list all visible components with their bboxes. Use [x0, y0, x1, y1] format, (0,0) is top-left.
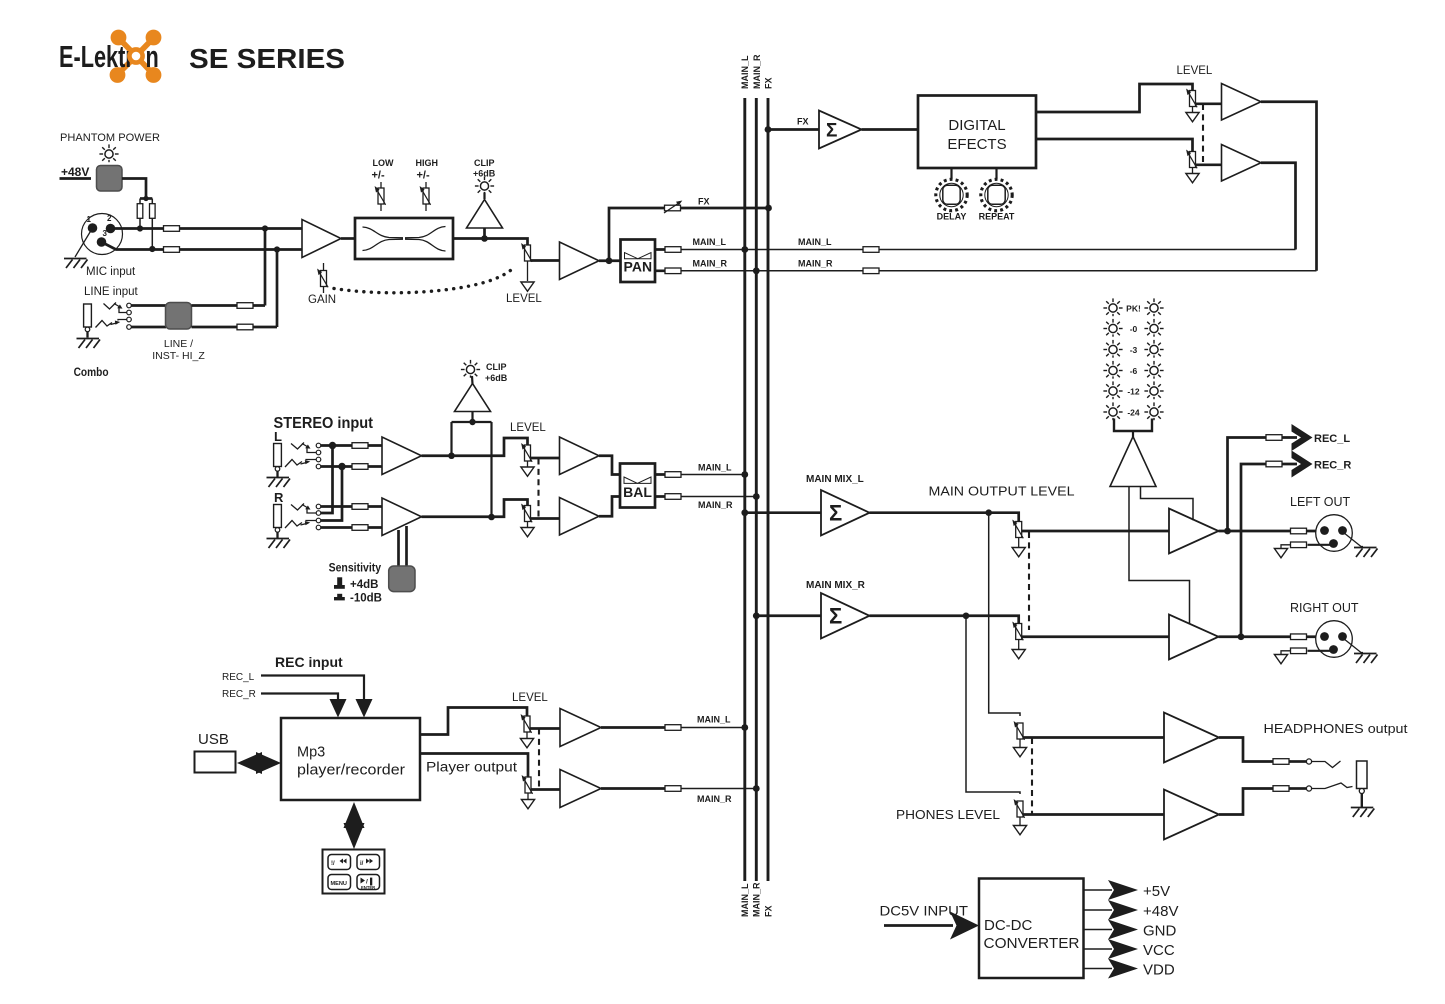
wire: main L out to XLR	[1219, 530, 1322, 533]
wire: R wiper to amp	[531, 517, 560, 520]
svg-text:LEVEL: LEVEL	[510, 422, 546, 434]
DIGITAL EFECTS block	[918, 96, 1036, 169]
svg-text:LEFT OUT: LEFT OUT	[1290, 495, 1351, 509]
wire: fx bus to sum amp	[768, 128, 819, 131]
junction: pan R on MAIN_R bus	[753, 267, 760, 274]
LED clip mic	[475, 176, 494, 194]
dashed gang link stereo pots	[537, 459, 539, 519]
icon +4dB switch	[334, 577, 345, 589]
contact: ring switch arrow	[111, 323, 118, 325]
L contact circles	[316, 443, 321, 448]
wire: jack tip to switch box	[131, 304, 166, 307]
resistor line cold	[237, 324, 253, 330]
main output pot L	[1012, 520, 1023, 539]
dotted gain-level link	[334, 266, 516, 293]
ground arrow player pot R	[527, 793, 529, 799]
clip detector amp (mic)	[467, 200, 503, 229]
junction: phones L tap	[985, 509, 992, 516]
wire: L-R normalling drop 2	[321, 467, 342, 521]
dashed gang link fx pots	[1202, 104, 1204, 164]
R tip lever	[291, 504, 304, 511]
svg-text:DIGITAL: DIGITAL	[948, 117, 1005, 134]
op-amp stereo R post	[560, 498, 600, 536]
sum amp FX	[819, 111, 862, 149]
junction: MAIN_R bus to sum	[753, 612, 760, 619]
svg-text:-24: -24	[1127, 408, 1140, 418]
svg-text:MAIN_L: MAIN_L	[697, 715, 731, 725]
svg-text:FX: FX	[797, 117, 809, 127]
wire: sum L to output pot	[870, 513, 1019, 522]
wire: sum amp to effects box	[862, 128, 919, 131]
resistor BAL L	[665, 472, 681, 478]
wire: clip bracket	[471, 412, 473, 423]
svg-text:+6dB: +6dB	[485, 373, 508, 383]
svg-text:LEVEL: LEVEL	[506, 293, 542, 305]
resistor pan R	[665, 268, 681, 274]
LEVEL pot (mic)	[521, 243, 532, 262]
wire: level wiper to amp	[531, 259, 560, 262]
XLR right out	[1316, 621, 1353, 658]
ground chassis (headphone)	[1351, 808, 1375, 818]
svg-text:-6: -6	[1130, 366, 1138, 376]
svg-text:CLIP: CLIP	[474, 158, 495, 168]
Mp3 player/recorder block	[281, 718, 420, 800]
resistor line hot	[237, 303, 253, 309]
op-amp mic post fader	[560, 242, 600, 280]
wire: line-in hot riser	[264, 229, 267, 306]
svg-text:1: 1	[87, 215, 92, 224]
LINE input jack plug	[84, 304, 92, 338]
svg-text:MAIN_R: MAIN_R	[693, 258, 728, 268]
wire: pot R wiper to amp	[1022, 635, 1169, 638]
junction: line input joins hot	[262, 225, 268, 231]
LEVEL pot player L	[521, 714, 532, 733]
wire: switch to cold riser	[192, 326, 278, 329]
LED clip stereo	[461, 360, 480, 378]
meter LEDs left column	[1103, 298, 1122, 316]
svg-text:n: n	[146, 39, 159, 74]
wire: sensitivity drop 2	[405, 526, 408, 566]
junction: phones R tap	[963, 612, 970, 619]
junction: clip dot top	[469, 419, 475, 425]
svg-text:VCC: VCC	[1143, 942, 1175, 959]
wire: +5V out	[1084, 889, 1113, 891]
wire: L wiper to amp	[531, 457, 560, 460]
EQ curves	[363, 227, 446, 252]
DC-DC converter block	[979, 879, 1084, 979]
ground chassis (mic)	[64, 259, 88, 269]
svg-text:VDD: VDD	[1143, 962, 1175, 979]
svg-text:MAIN MIX_L: MAIN MIX_L	[806, 474, 864, 485]
icon -10dB switch	[334, 594, 345, 601]
wire: pot L wiper to amp	[1022, 530, 1169, 533]
svg-text:LINE /: LINE /	[164, 338, 193, 350]
wire: REC_R into player	[261, 694, 338, 701]
resistor phones R	[1273, 786, 1289, 792]
wire: pot R wiper to amp	[1196, 163, 1222, 166]
junction: clip tap on signal	[481, 235, 488, 242]
svg-text:Σ: Σ	[829, 604, 842, 629]
wire: L-R normalling drop 1	[321, 446, 333, 514]
sum amp main L	[821, 490, 870, 536]
svg-text:REC_R: REC_R	[1314, 460, 1351, 472]
op-amp main out L	[1169, 509, 1219, 554]
phones pot L	[1014, 721, 1025, 740]
resistor mic hot	[164, 226, 180, 232]
svg-text:RIGHT OUT: RIGHT OUT	[1290, 601, 1359, 615]
svg-text:2: 2	[107, 214, 112, 223]
HIGH pot	[425, 182, 427, 211]
svg-text:Σ: Σ	[826, 121, 837, 142]
svg-text:MAIN MIX_R: MAIN MIX_R	[806, 580, 866, 591]
wire: stereo R to level pot	[422, 500, 528, 517]
button next	[357, 855, 380, 870]
svg-text:LEVEL: LEVEL	[512, 692, 548, 704]
junction: MAIN_L bus to sum	[741, 509, 748, 516]
svg-text:MAIN_R: MAIN_R	[698, 500, 733, 510]
svg-text:REC_L: REC_L	[222, 672, 255, 683]
wire: REC_L riser	[1228, 438, 1298, 532]
svg-text:MAIN_R: MAIN_R	[752, 54, 762, 89]
wire: BAL L to bus	[655, 473, 673, 476]
arrow REC_R	[1292, 451, 1313, 478]
main output pot R	[1012, 622, 1023, 641]
wire: pin2 to preamp (hot)	[111, 227, 303, 230]
wire: pan R out to bus	[655, 269, 673, 272]
junction: BAL R on bus	[753, 493, 760, 500]
wire: phones feed R	[966, 616, 1020, 794]
LEVEL pot stereo R	[521, 504, 532, 523]
op-amp phones L	[1164, 713, 1219, 763]
LINE/INST switch	[166, 303, 192, 330]
wire: sensitivity drop 1	[397, 530, 400, 566]
resistor XLR R	[1291, 634, 1307, 640]
ground arrow player pot L	[526, 732, 528, 738]
XLR left out	[1316, 515, 1353, 552]
R ring normal wire	[306, 520, 316, 523]
ground arrow stereo R pot	[527, 522, 529, 528]
logo molecule ring	[129, 49, 142, 62]
svg-text:MAIN_L: MAIN_L	[740, 883, 750, 917]
ground arrow stereo L pot	[527, 461, 529, 467]
meter driver amp	[1110, 437, 1156, 487]
knob DELAY	[936, 179, 967, 210]
wire: R to BAL	[599, 497, 620, 517]
op-amp fx return R	[1222, 145, 1262, 182]
svg-text:HEADPHONES output: HEADPHONES output	[1264, 721, 1408, 736]
svg-text:+4dB: +4dB	[350, 579, 378, 591]
resistor player L	[665, 725, 681, 731]
ground arrow (mic level)	[521, 282, 534, 291]
wire: preamp to EQ	[341, 237, 355, 240]
wire: MAIN_R line across right	[756, 270, 1316, 272]
resistor XLR L	[1291, 528, 1307, 534]
logo molecule arms	[118, 38, 154, 75]
L ring lever	[285, 460, 302, 468]
ground arrow fx pot R	[1192, 168, 1194, 174]
xlr R pin3 ground path	[1308, 650, 1331, 652]
svg-text:GND: GND	[1143, 923, 1177, 940]
svg-text:MIC input: MIC input	[86, 266, 136, 278]
L jack plug	[274, 444, 282, 478]
junction: line input joins cold	[274, 246, 280, 252]
op-amp stereo L	[382, 437, 422, 475]
junction: pan L on MAIN_L bus	[741, 246, 748, 253]
junction: L ring normalling	[338, 463, 345, 470]
junction: BAL L on bus	[741, 471, 748, 478]
wire: R ring to amp	[321, 526, 382, 529]
svg-text:GAIN: GAIN	[308, 294, 336, 306]
wire: VCC out	[1084, 948, 1113, 950]
bus MAIN_R	[755, 98, 758, 881]
L tip lever	[291, 443, 304, 450]
wire: main R out to XLR	[1219, 635, 1322, 638]
svg-text:-10dB: -10dB	[350, 593, 382, 605]
op-amp player R	[560, 770, 601, 808]
svg-text:FX: FX	[764, 77, 774, 89]
svg-text:PHONES LEVEL: PHONES LEVEL	[896, 807, 1000, 822]
resistor phones L	[1273, 759, 1289, 765]
wire: phones feed L	[989, 513, 1020, 716]
wire: pot L wiper to amp	[530, 727, 560, 730]
svg-text:+48V: +48V	[61, 165, 89, 179]
ground arrow phones pot R	[1019, 817, 1021, 825]
L tip normal wire	[307, 448, 316, 453]
GAIN pot	[323, 263, 325, 293]
wire: player out L	[420, 708, 527, 735]
L ring normal wire	[306, 459, 316, 462]
junction: L tip normalling	[329, 442, 336, 449]
wire: REC_L into player	[261, 676, 364, 701]
ground arrow main pot L	[1018, 538, 1020, 548]
svg-text:INST- HI_Z: INST- HI_Z	[152, 350, 205, 362]
FX send pot	[665, 205, 681, 211]
resistor R ring	[352, 525, 368, 531]
op-amp main out R	[1169, 615, 1219, 660]
wire: fx return L to MAIN_R line	[1261, 102, 1317, 271]
wire: phones R wiper to amp	[1023, 813, 1164, 816]
svg-text:-3: -3	[1130, 345, 1138, 355]
junction: player R on bus	[753, 785, 760, 792]
headphone jack plug	[1357, 761, 1368, 789]
svg-text:REC input: REC input	[275, 654, 343, 670]
wire: dc input	[884, 924, 953, 927]
EQ block	[355, 218, 453, 259]
R ring lever	[285, 521, 302, 529]
USB port box	[195, 752, 236, 773]
wire: phones R to jack	[1219, 789, 1291, 815]
meter bracket	[1114, 419, 1152, 432]
PAN block	[621, 240, 656, 283]
wire: MAIN_L line across right	[745, 249, 1296, 251]
wire: stereo L to level pot	[422, 438, 528, 456]
wire: xlr L ground leg	[1344, 533, 1364, 547]
wire: jack sleeve to switch box	[131, 326, 166, 329]
op-amp mic preamp	[302, 220, 341, 258]
phones pot R	[1014, 799, 1025, 818]
wire: meter tap R	[1141, 487, 1194, 521]
contact: tip lever	[104, 303, 117, 310]
ground arrow phones pot L	[1019, 739, 1021, 747]
junction: fx send tap	[606, 257, 613, 264]
wire: fx send riser	[609, 208, 769, 261]
LEVEL pot player R	[522, 775, 533, 794]
svg-text:+/-: +/-	[417, 170, 430, 182]
resistor mic cold	[164, 247, 180, 253]
arrow dc input	[950, 912, 979, 940]
svg-text:DELAY: DELAY	[937, 212, 967, 222]
svg-text:+5V: +5V	[1143, 883, 1170, 900]
junction: REC_L tap	[1224, 528, 1231, 535]
bus MAIN_L	[743, 98, 746, 881]
ground arrow fx pot L	[1192, 107, 1194, 113]
svg-text:MAIN_L: MAIN_L	[798, 237, 832, 247]
wire: L ring to amp	[321, 465, 382, 468]
resistor L tip	[352, 443, 368, 449]
op-amp stereo R	[382, 498, 422, 536]
wire: amp to pan node	[599, 259, 621, 262]
svg-text:MAIN_L: MAIN_L	[698, 462, 732, 472]
contact circles (line input)	[127, 303, 132, 308]
R tip normal wire	[307, 509, 316, 514]
button panel	[323, 850, 385, 894]
wire: clip tap	[483, 228, 486, 239]
resistor player R	[665, 786, 681, 792]
wire: EQ out to level pot	[453, 239, 528, 246]
svg-text:MAIN_R: MAIN_R	[697, 794, 732, 804]
wire: R tip to amp	[321, 505, 382, 508]
svg-text:-0: -0	[1130, 324, 1138, 334]
wire: phones L to jack	[1219, 738, 1291, 762]
wire: bus to sum L	[745, 511, 821, 514]
USB double arrow	[237, 752, 262, 774]
dashed gang link player pots	[538, 729, 540, 790]
contact lever phones R	[1312, 783, 1353, 789]
button menu	[328, 875, 351, 890]
wire: L tip to amp	[321, 444, 382, 447]
svg-text:PK!: PK!	[1126, 304, 1141, 314]
control diamond arrow	[344, 802, 365, 828]
svg-text:LEVEL: LEVEL	[1177, 65, 1213, 77]
dashed gang link main pots	[1028, 532, 1030, 630]
op-amp stereo L post	[560, 437, 600, 475]
svg-text:DC-DC: DC-DC	[984, 917, 1032, 934]
wire: switch to hot riser	[192, 304, 266, 307]
wire: sum R to output pot	[870, 616, 1019, 624]
svg-text:MAIN_L: MAIN_L	[693, 237, 727, 247]
FX return level pot R	[1186, 150, 1197, 169]
junction: FX bus to sum amp	[765, 126, 772, 133]
junction: REC_R tap	[1238, 633, 1245, 640]
svg-text:Combo: Combo	[74, 365, 109, 379]
wire: ring normal contact	[118, 320, 127, 321]
resistor phantom B	[150, 204, 156, 219]
contact: tip switch arrow	[114, 304, 120, 308]
resistor MAIN_L return	[863, 247, 879, 253]
wire: pot to ground arrow	[527, 261, 529, 281]
dashed gang link phones pots	[1031, 738, 1033, 814]
svg-text:+/-: +/-	[372, 170, 385, 182]
wire: phones L wiper to amp	[1023, 736, 1164, 739]
wire: meter tap L	[1129, 487, 1190, 625]
ground chassis (line input)	[77, 339, 101, 349]
svg-text:LOW: LOW	[373, 158, 394, 168]
bus FX	[767, 98, 770, 881]
button play/enter	[357, 875, 380, 890]
svg-text:player/recorder: player/recorder	[297, 763, 405, 779]
svg-text:MAIN OUTPUT LEVEL: MAIN OUTPUT LEVEL	[929, 484, 1075, 499]
R contact circles	[316, 504, 321, 509]
resistor REC_R	[1266, 461, 1282, 467]
wire: +48V feed	[60, 177, 92, 180]
sensitivity switch	[389, 566, 415, 592]
phantom power switch	[97, 166, 123, 192]
junction: clip on L	[448, 452, 455, 459]
wire: L to BAL	[599, 456, 620, 475]
wire: xlr R ground leg	[1344, 639, 1364, 653]
arrow REC_L	[1292, 424, 1313, 451]
wire: player out R	[420, 754, 528, 778]
junction: clip on R	[488, 514, 495, 521]
svg-text:R: R	[274, 490, 284, 505]
junction: player L on bus	[741, 724, 748, 731]
svg-text:REC_R: REC_R	[222, 689, 256, 700]
svg-text:LINE input: LINE input	[84, 286, 139, 298]
wire: effects out L to level pot	[1036, 84, 1193, 112]
sum amp main R	[821, 593, 870, 639]
XLR MIC input connector	[82, 214, 123, 255]
resistor phantom A	[137, 204, 143, 219]
button prev	[328, 855, 351, 870]
resistor MAIN_R return	[863, 268, 879, 274]
resistor L ring	[352, 464, 368, 470]
op-amp fx return L	[1222, 84, 1262, 121]
resistor pan L	[665, 247, 681, 253]
ground arrow main pot R	[1018, 640, 1020, 650]
resistor REC_L	[1266, 435, 1282, 441]
svg-text:!/: !/	[331, 861, 335, 867]
clip detector amp (stereo)	[455, 384, 491, 412]
svg-text:REPEAT: REPEAT	[979, 212, 1015, 222]
svg-text:MAIN_R: MAIN_R	[751, 882, 761, 917]
svg-text:HIGH: HIGH	[416, 158, 439, 168]
svg-text:ENTER: ENTER	[361, 885, 375, 890]
svg-text:+48V: +48V	[1143, 903, 1178, 920]
contact lever phones L	[1312, 761, 1341, 768]
meter LEDs right column	[1144, 298, 1163, 316]
svg-text:i/: i/	[360, 861, 364, 867]
svg-text:USB: USB	[198, 731, 229, 748]
svg-text:CONVERTER: CONVERTER	[984, 935, 1080, 952]
LED phantom	[99, 144, 118, 162]
svg-text:MENU: MENU	[331, 881, 347, 887]
xlr L pin3 ground path	[1308, 544, 1331, 546]
svg-text:Player output: Player output	[426, 760, 517, 775]
knob stem DELAY	[950, 168, 952, 179]
wire: BAL R to bus	[655, 495, 673, 498]
wire: player R to MAIN_R bus	[601, 787, 673, 790]
op-amp player L	[560, 709, 601, 747]
junction: resistor B to pin3 line	[149, 246, 155, 252]
wire: REC_R riser	[1241, 464, 1297, 637]
wire: line-in cold riser	[276, 250, 279, 328]
svg-text:FX: FX	[763, 905, 773, 917]
svg-text:MAIN_L: MAIN_L	[740, 55, 750, 89]
PAN bowtie	[625, 253, 639, 259]
BAL bowtie	[624, 477, 638, 483]
svg-text:REC_L: REC_L	[1314, 433, 1350, 445]
svg-text:-12: -12	[1127, 387, 1140, 397]
